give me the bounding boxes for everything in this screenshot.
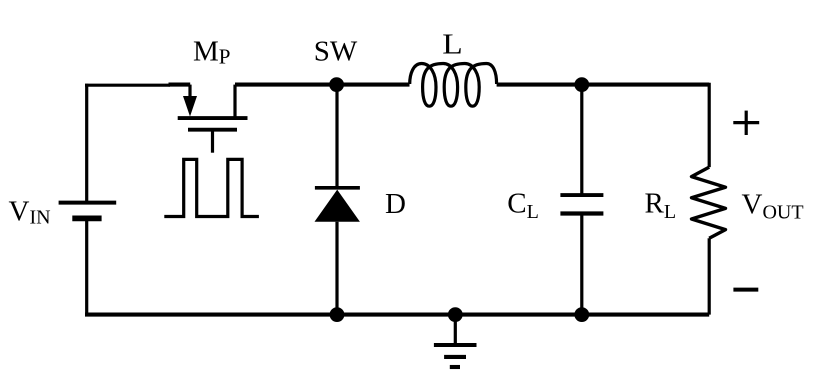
ground symbol bars <box>434 345 477 367</box>
label L <box>442 28 463 60</box>
minus sign (output polarity) <box>733 288 758 292</box>
gate drive pulse waveform <box>164 159 259 216</box>
svg-text:MP: MP <box>193 36 230 69</box>
wire: output node to top-right corner <box>582 83 709 87</box>
wire: inductor to output node <box>497 83 582 87</box>
wire: SW node to inductor <box>337 83 410 87</box>
wire: top rail, drain to SW node <box>235 83 337 87</box>
label CL <box>507 187 539 222</box>
plus sign (output polarity) <box>733 111 759 135</box>
wire: capacitor bottom plate down to bottom rail <box>580 214 583 315</box>
svg-text:L: L <box>442 28 463 60</box>
transistor MP drain lead <box>233 85 236 118</box>
svg-text:RL: RL <box>645 187 677 222</box>
svg-text:VOUT: VOUT <box>742 189 804 224</box>
svg-text:SW: SW <box>314 36 358 68</box>
label D <box>385 188 406 220</box>
wire: top rail, left segment to transistor source <box>85 83 190 87</box>
node: inductor-capacitor junction dot <box>574 77 589 92</box>
diode D cathode bar <box>315 186 360 190</box>
label VIN <box>9 195 51 228</box>
wire: left rail vertical, top half <box>85 84 88 201</box>
capacitor CL bottom plate <box>560 211 603 215</box>
resistor RL zigzag <box>692 167 726 238</box>
node SW junction dot <box>329 77 344 92</box>
capacitor CL top plate <box>560 193 603 197</box>
label MP <box>193 36 230 69</box>
transistor MP channel bar <box>178 116 248 120</box>
label SW <box>314 36 358 68</box>
wire: right rail vertical, bottom (resistor to bottom rail) <box>708 238 711 314</box>
node: capacitor-ground junction dot on bottom rail <box>574 307 589 322</box>
wire: output node down to capacitor top plate <box>580 85 583 194</box>
transistor Q1 MP source lead with arrow <box>183 85 197 117</box>
svg-text:VIN: VIN <box>9 195 51 228</box>
wire: ground stub <box>454 315 457 345</box>
transistor MP gate bar <box>188 128 237 132</box>
wire: diode anode down to bottom rail <box>335 222 338 315</box>
diode D triangle (anode, pointing up) <box>315 190 360 222</box>
svg-text:D: D <box>385 188 406 220</box>
wire: right rail vertical, top (corner down to resistor) <box>708 83 711 167</box>
inductor L coil <box>410 64 497 107</box>
label RL <box>645 187 677 222</box>
transistor MP gate lead <box>211 131 214 153</box>
wire: SW node down to diode cathode <box>335 85 338 186</box>
node: diode-ground junction dot on bottom rail <box>330 307 345 322</box>
wire: bottom rail <box>85 313 709 317</box>
svg-text:CL: CL <box>507 187 539 222</box>
wire: left rail vertical, bottom half <box>85 221 88 315</box>
battery VIN long (positive) plate <box>59 201 117 205</box>
battery VIN short (negative) plate <box>72 215 101 221</box>
label VOUT <box>742 189 804 224</box>
node: ground junction dot on bottom rail <box>448 307 463 322</box>
